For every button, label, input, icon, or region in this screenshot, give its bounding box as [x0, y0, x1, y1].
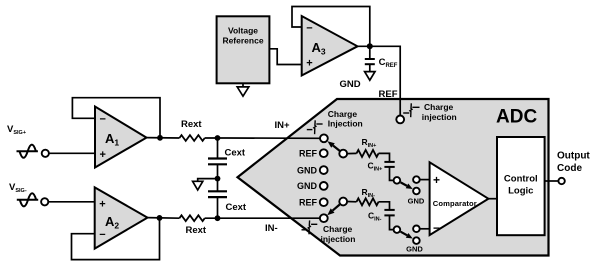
charge injection glyph (REF) [403, 103, 419, 117]
node A1 output [157, 135, 163, 141]
wire VSIG- to A2 [48, 201, 94, 203]
svg-text:Control: Control [504, 174, 538, 185]
svg-text:+: + [99, 198, 105, 210]
GND throw circle (lower) [413, 237, 420, 244]
svg-text:Reference: Reference [222, 36, 263, 46]
svg-text:Comparator: Comparator [433, 199, 477, 208]
output terminal circle [558, 178, 564, 184]
source VSIG+ [17, 145, 38, 158]
ADC body [238, 99, 549, 256]
terminal circle VSIG- [41, 198, 48, 205]
voltage reference box [217, 16, 270, 83]
svg-text:Charge: Charge [424, 102, 454, 112]
svg-text:Output: Output [557, 151, 590, 162]
wire throw to comparator + input [420, 179, 430, 181]
GND terminal circle (row3) [320, 182, 328, 190]
REF terminal circle (row4) [320, 198, 328, 206]
capacitor Cext (lower) [208, 179, 227, 219]
svg-text:Rext: Rext [181, 119, 202, 130]
svg-text:injection: injection [321, 234, 356, 244]
capacitor CIN- [384, 210, 394, 230]
source VSIG- [17, 193, 38, 206]
svg-text:Cext: Cext [225, 147, 246, 158]
REF terminal circle (row1) [320, 149, 328, 157]
terminal circle VSIG+ [42, 150, 49, 157]
IN+ terminal circle [320, 134, 328, 142]
throw to comparator - [413, 226, 420, 233]
IN- wire from Cext node to IN- terminal [227, 217, 320, 219]
svg-text:+: + [433, 173, 440, 187]
svg-text:+: + [306, 58, 312, 70]
resistor RIN- [347, 198, 389, 209]
wire comparator to control logic [488, 198, 497, 200]
capacitor Cext (upper) [208, 138, 227, 179]
svg-text:injection: injection [422, 112, 457, 122]
switch arm (upper) [328, 141, 340, 151]
wire A1 feedback loop [72, 98, 160, 138]
resistor Rext (lower) [179, 215, 204, 221]
svg-text:Cext: Cext [226, 202, 247, 213]
switch pole circle (upper) [339, 150, 347, 158]
resistor Rext (upper) [179, 135, 204, 141]
op-amp A3 [302, 16, 358, 76]
IN- terminal circle [320, 214, 328, 222]
capacitor CREF [365, 46, 375, 71]
sampling switch pole (lower) [394, 226, 401, 233]
op-amp A2 [95, 187, 148, 248]
GND terminal circle (row2) [320, 166, 328, 174]
svg-text:−: − [306, 22, 312, 34]
svg-text:Voltage: Voltage [228, 26, 258, 36]
svg-text:IN-: IN- [265, 223, 278, 234]
svg-text:REF: REF [299, 197, 318, 207]
node Cext lower [215, 215, 221, 221]
wire A2 output to Rext [148, 217, 180, 220]
svg-text:Code: Code [557, 163, 582, 174]
GND throw circle (upper) [413, 188, 420, 195]
svg-text:−: − [433, 221, 440, 235]
IN+ wire from Cext node to IN+ terminal [227, 137, 320, 139]
wire A3 output to REF corner [358, 46, 401, 115]
svg-text:GND: GND [297, 165, 318, 175]
svg-text:+: + [99, 149, 105, 161]
ground stub (Cext mid) [193, 179, 218, 190]
svg-text:−: − [99, 113, 105, 125]
switch arm with arrow (upper sampling) [401, 182, 413, 189]
node A3 output [367, 43, 373, 49]
svg-text:GND: GND [340, 79, 361, 90]
switch pole circle (lower) [339, 198, 347, 206]
svg-text:IN+: IN+ [275, 120, 291, 131]
svg-text:−: − [99, 229, 105, 241]
throw to comparator + [413, 176, 420, 183]
charge injection glyph (IN-) [302, 220, 318, 234]
svg-text:Logic: Logic [508, 186, 533, 197]
node between Cext caps [215, 176, 221, 182]
switch arm with arrow (lower sampling) [401, 232, 413, 239]
REF terminal circle [396, 116, 404, 124]
svg-text:REF: REF [299, 148, 318, 158]
charge injection glyph (IN+) [307, 120, 323, 134]
output wire [545, 180, 559, 182]
switch arm (lower) [327, 205, 339, 216]
wire A1 output to Rext [147, 137, 180, 139]
ground (CREF) [365, 72, 375, 81]
svg-text:REF: REF [379, 89, 398, 100]
wire Rext lower to node [205, 217, 227, 219]
resistor RIN+ [347, 150, 389, 162]
svg-text:GND: GND [406, 245, 423, 254]
wire A3 feedback loop [292, 7, 370, 47]
svg-text:Injection: Injection [328, 118, 363, 128]
wire VSIG+ to A1 [49, 152, 95, 154]
comparator [430, 162, 489, 235]
control logic box [497, 137, 545, 235]
svg-text:ADC: ADC [496, 107, 537, 128]
wire VRef to A3 + input [269, 49, 301, 65]
svg-text:GND: GND [408, 197, 425, 206]
svg-text:GND: GND [297, 181, 318, 191]
op-amp A1 [95, 107, 147, 168]
capacitor CIN+ [384, 162, 394, 181]
wire throw to comparator - input [420, 228, 430, 230]
node Cext upper [215, 135, 221, 141]
ground (voltage reference) [237, 83, 249, 96]
wire Rext to node [205, 137, 227, 139]
svg-text:Rext: Rext [186, 225, 207, 236]
wire A2 feedback loop [72, 218, 160, 260]
svg-text:Charge: Charge [323, 224, 353, 234]
node A2 output [157, 215, 163, 221]
sampling switch pole (upper) [394, 177, 401, 184]
